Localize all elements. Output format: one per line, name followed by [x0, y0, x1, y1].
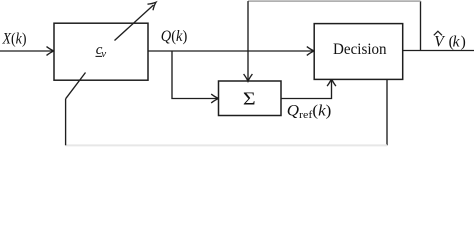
label c_v	[96, 42, 107, 60]
wire: Q(k) branch down into sigma	[172, 51, 219, 103]
svg-text:X(k): X(k)	[2, 30, 27, 47]
label Q(k)	[161, 28, 188, 45]
svg-text:V: V	[434, 33, 445, 50]
wire: adaptation diagonal into c_v bottom	[66, 73, 86, 99]
svg-text:Q(k): Q(k)	[161, 28, 188, 45]
label Decision	[333, 41, 387, 58]
wire: X(k) input into c_v	[0, 47, 54, 56]
wire: Decision output V^(k) to right edge	[403, 50, 474, 52]
label Qref(k)	[287, 102, 332, 121]
hat of V^(k)	[434, 31, 442, 35]
svg-text:k: k	[453, 33, 461, 50]
svg-text:Qref(k): Qref(k)	[287, 102, 332, 121]
wire: Q(k) from c_v to Decision	[148, 47, 314, 56]
svg-text:Decision: Decision	[333, 41, 387, 58]
block c_v (adaptive filter)	[54, 23, 148, 80]
wire: feedback from Decision bottom across bottom edge to c_v adaptation	[66, 79, 387, 145]
svg-text:): )	[461, 33, 466, 50]
svg-text:v: v	[101, 48, 106, 60]
block sigma	[219, 81, 282, 116]
block Decision	[314, 24, 403, 80]
label V^(k)	[434, 33, 465, 50]
underline of c_v	[96, 55, 103, 57]
wire: sigma output Qref(k) up into Decision bottom	[281, 79, 336, 99]
wire: feedback branch from V^(k) up across top into sigma	[244, 1, 421, 81]
svg-text:Σ: Σ	[243, 89, 256, 109]
label sigma	[243, 89, 256, 109]
adaptation arrow through c_v (top-right diagonal)	[115, 2, 157, 40]
label X(k)	[2, 30, 27, 47]
